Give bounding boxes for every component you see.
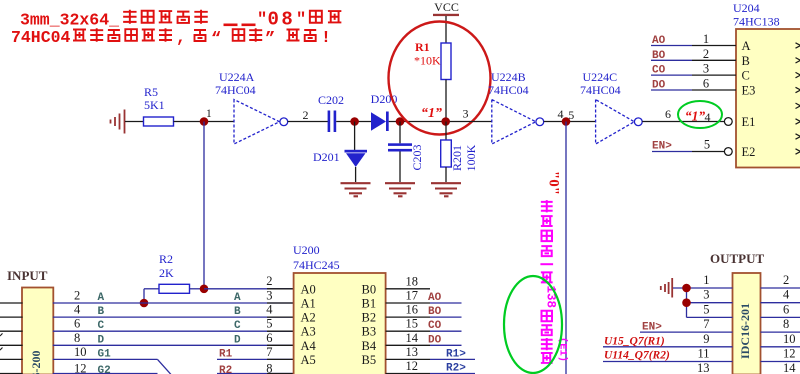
svg-text:C: C xyxy=(742,69,750,83)
svg-text:!: ! xyxy=(321,28,331,47)
green ellipse (around enable note) xyxy=(504,276,562,373)
svg-text:2: 2 xyxy=(266,274,272,288)
wire (connector right pins 2-14) xyxy=(761,288,800,362)
pin arrows inside U204 right edge xyxy=(796,43,800,154)
svg-text:“1”: “1” xyxy=(421,106,442,121)
svg-text:6: 6 xyxy=(783,302,789,316)
svg-text:C203: C203 xyxy=(410,144,424,170)
resistor R1 xyxy=(414,40,451,122)
wire xyxy=(125,121,144,123)
svg-text:G1: G1 xyxy=(98,348,112,360)
svg-text:4: 4 xyxy=(705,110,711,124)
wire (pin 6 to E1) xyxy=(642,107,724,124)
svg-text:C: C xyxy=(234,320,241,332)
wire (pins 4,5) xyxy=(544,107,596,122)
right pin numbers 2-14 xyxy=(783,273,796,374)
red highlight circle around R1 xyxy=(389,22,491,135)
connector IDC16-201 xyxy=(733,273,761,374)
svg-text:E3: E3 xyxy=(742,84,756,98)
wire net B (pin4 to U200 pin4) xyxy=(53,303,294,319)
wire (down to C203) xyxy=(399,122,401,144)
wire (connector left stubs) xyxy=(0,303,23,374)
svg-text:BO: BO xyxy=(428,306,442,318)
capacitor C203 xyxy=(388,143,424,182)
ground (under D201) xyxy=(341,183,371,196)
svg-text:R2: R2 xyxy=(219,365,232,374)
wire net R1 (U200 pin7) xyxy=(217,345,294,361)
op-amp U224C (74HC04 inverter) xyxy=(580,70,642,144)
svg-text:15: 15 xyxy=(406,317,419,331)
svg-text:U204: U204 xyxy=(733,1,760,15)
wire net AO (U204 pin 1) xyxy=(651,32,736,47)
svg-text:3: 3 xyxy=(703,288,709,302)
svg-text:74HC04: 74HC04 xyxy=(580,83,621,97)
annotation vertical magenta text xyxy=(540,200,568,363)
svg-text:100K: 100K xyxy=(464,144,478,171)
svg-text:DO: DO xyxy=(652,80,666,92)
svg-text:OUTPUT: OUTPUT xyxy=(710,251,765,266)
annotation "1" (red, green ellipse) xyxy=(678,101,722,128)
svg-text:12: 12 xyxy=(74,362,87,374)
svg-text:6: 6 xyxy=(703,77,709,91)
svg-text:R201: R201 xyxy=(450,145,464,171)
svg-text:R5: R5 xyxy=(144,85,158,99)
svg-text:CO: CO xyxy=(652,65,666,77)
wire xyxy=(389,121,446,123)
svg-text:18: 18 xyxy=(406,274,419,288)
svg-text:3: 3 xyxy=(266,289,272,303)
svg-text:4: 4 xyxy=(783,288,790,302)
svg-text:U114_Q7(R2): U114_Q7(R2) xyxy=(604,349,670,361)
svg-text:D201: D201 xyxy=(313,150,340,164)
wire (down to D201) xyxy=(354,122,356,151)
node junction (R2 right) xyxy=(200,285,209,294)
svg-text:3: 3 xyxy=(703,62,709,76)
node junction (R1/R201) xyxy=(441,107,468,126)
svg-text:5: 5 xyxy=(266,317,272,331)
wire net U114_Q7(R2) (pin 11) xyxy=(603,347,733,362)
svg-text:E2: E2 xyxy=(742,145,756,159)
svg-text:4: 4 xyxy=(266,303,273,317)
svg-text:6: 6 xyxy=(74,317,80,331)
svg-text:74HC04: 74HC04 xyxy=(11,28,71,47)
svg-text:6: 6 xyxy=(665,107,671,121)
svg-text:U200: U200 xyxy=(293,243,320,257)
svg-text:IDC16-200: IDC16-200 xyxy=(29,351,43,374)
svg-text:B4: B4 xyxy=(362,339,377,353)
wire net AO (U200 pin 17) xyxy=(386,289,462,305)
svg-text:U224B: U224B xyxy=(491,70,526,84)
svg-text:74HC04: 74HC04 xyxy=(215,83,256,97)
svg-text:1: 1 xyxy=(206,108,212,120)
wire net D (pin8 to U200 pin6) xyxy=(53,331,294,347)
svg-text:R1: R1 xyxy=(219,348,233,360)
svg-text:11: 11 xyxy=(697,347,709,361)
IC U200 74HC245 xyxy=(293,243,386,374)
wire net U15_Q7(R1) (pin 9) xyxy=(603,332,733,348)
wire net R1> (U200 pin 13) xyxy=(386,345,475,361)
svg-text:2: 2 xyxy=(703,47,709,61)
svg-text:9: 9 xyxy=(703,332,709,346)
connector IDC16-200 xyxy=(22,288,53,374)
svg-text:A3: A3 xyxy=(301,325,316,339)
node junction xyxy=(396,117,405,126)
diode D200 xyxy=(371,92,398,131)
wire (long vertical to bottom) xyxy=(565,122,567,374)
svg-text:B5: B5 xyxy=(362,353,377,367)
svg-text:B: B xyxy=(234,306,241,318)
ground (under R201) xyxy=(431,183,461,196)
svg-text:8: 8 xyxy=(266,362,272,374)
svg-text:VCC: VCC xyxy=(434,0,459,14)
svg-text:13: 13 xyxy=(406,345,419,359)
op-amp U224A (74HC04 inverter) xyxy=(215,70,288,144)
wire (gnd to pins 1,3,5) xyxy=(673,288,733,317)
svg-text:U224C: U224C xyxy=(583,70,618,84)
svg-text:A4: A4 xyxy=(301,339,317,353)
svg-text:"0": "0" xyxy=(546,171,562,195)
svg-text:D: D xyxy=(234,334,241,346)
svg-text:7: 7 xyxy=(266,345,272,359)
pin numbers 1,3,5 xyxy=(703,273,709,316)
svg-text:14: 14 xyxy=(783,361,796,374)
svg-text:,: , xyxy=(176,28,186,47)
wire net EN (U204 pin 5 / E2) xyxy=(652,138,732,156)
svg-text:": " xyxy=(296,11,306,30)
svg-text:R2: R2 xyxy=(159,252,173,266)
svg-text:74HC245: 74HC245 xyxy=(293,258,340,272)
svg-text:2K: 2K xyxy=(159,266,174,280)
svg-text:B2: B2 xyxy=(362,311,377,325)
svg-text:12: 12 xyxy=(783,347,796,361)
svg-text:4: 4 xyxy=(74,303,81,317)
svg-text:AO: AO xyxy=(428,292,442,304)
wire (cut arrowheads at sheet edge) xyxy=(0,333,3,350)
node junction (pin1) xyxy=(682,284,691,293)
svg-text:A0: A0 xyxy=(301,282,316,296)
ground (OUTPUT pins 1,3,5) xyxy=(661,278,672,298)
wire net BO (U204 pin 2) xyxy=(651,47,736,62)
svg-text:R2>: R2> xyxy=(446,363,466,374)
svg-text:U15_Q7(R1): U15_Q7(R1) xyxy=(604,335,665,347)
wire net DO (U200 pin 14) xyxy=(386,331,462,347)
svg-text:7: 7 xyxy=(703,317,709,331)
svg-text:138: 138 xyxy=(543,286,557,309)
svg-text:3: 3 xyxy=(463,107,469,121)
svg-text:2: 2 xyxy=(74,289,80,303)
svg-text:B: B xyxy=(742,54,750,68)
svg-text:17: 17 xyxy=(406,289,419,303)
node junction at pin 1 xyxy=(200,108,212,126)
svg-text:G2: G2 xyxy=(98,365,111,374)
svg-text:": " xyxy=(257,11,267,30)
wire (U200 pin 18) xyxy=(386,274,430,289)
pin E1 bubble xyxy=(724,118,732,126)
svg-text:2: 2 xyxy=(783,273,789,287)
IC U204 74HC138 xyxy=(733,1,800,168)
wire net DO (U204 pin 6) xyxy=(651,77,736,92)
wire net CO (U204 pin 3) xyxy=(651,62,736,77)
svg-text:5K1: 5K1 xyxy=(144,98,165,112)
svg-text:*10K: *10K xyxy=(414,54,441,68)
wire net C (pin6 to U200 pin5) xyxy=(53,317,294,333)
node junction (pin3) xyxy=(682,298,691,307)
svg-text:A1: A1 xyxy=(301,297,316,311)
svg-text:5: 5 xyxy=(703,302,709,316)
svg-text:13: 13 xyxy=(697,361,710,374)
wire net BO (U200 pin 16) xyxy=(386,303,462,319)
svg-text:A: A xyxy=(98,292,105,304)
wire net EN (pin 7) xyxy=(640,317,733,333)
svg-text:B: B xyxy=(98,306,105,318)
svg-text:DO: DO xyxy=(428,334,442,346)
wire (vertical from node 1 down to R2 row) xyxy=(203,122,205,289)
svg-text:8: 8 xyxy=(74,331,80,345)
svg-text:5: 5 xyxy=(704,138,710,152)
svg-text:1: 1 xyxy=(703,273,709,287)
svg-text:C202: C202 xyxy=(318,93,344,107)
svg-text:IDC16-201: IDC16-201 xyxy=(738,303,752,359)
wire net A (pin2 to U200 pin3) xyxy=(53,289,294,305)
svg-text:10: 10 xyxy=(74,345,87,359)
wire net G2 (pin12, exits bottom) xyxy=(53,362,158,374)
svg-text:EN>: EN> xyxy=(642,321,662,333)
svg-text:74HC138: 74HC138 xyxy=(733,15,780,29)
svg-text:“: “ xyxy=(211,30,221,49)
svg-text:CO: CO xyxy=(428,320,442,332)
diode D201 xyxy=(313,150,367,182)
wire xyxy=(450,121,492,123)
wire net CO (U200 pin 15) xyxy=(386,317,462,333)
svg-text:C: C xyxy=(98,320,105,332)
svg-text:16: 16 xyxy=(406,303,419,317)
wire (pin 2) xyxy=(288,108,328,122)
resistor R2 xyxy=(144,252,204,303)
ground (under C203) xyxy=(385,183,415,196)
title line 1 xyxy=(20,9,341,31)
svg-text:10: 10 xyxy=(783,332,796,346)
power VCC xyxy=(433,0,459,43)
svg-text:3mm_32x64_: 3mm_32x64_ xyxy=(20,11,119,30)
svg-text:A5: A5 xyxy=(301,353,316,367)
svg-text:D: D xyxy=(98,334,105,346)
svg-text:BO: BO xyxy=(652,50,666,62)
capacitor C202 xyxy=(318,93,344,132)
svg-text:74HC04: 74HC04 xyxy=(488,83,529,97)
wire net R2> (U200 pin 12) xyxy=(386,359,475,374)
svg-text:08: 08 xyxy=(268,9,296,31)
title line 2 xyxy=(11,28,331,49)
wire xyxy=(174,121,235,123)
svg-text:2: 2 xyxy=(303,108,309,122)
svg-text:A: A xyxy=(234,292,241,304)
svg-text:”: ” xyxy=(265,30,275,49)
svg-text:B3: B3 xyxy=(362,325,377,339)
node junction (pin4/5) xyxy=(562,117,571,126)
node junction xyxy=(350,117,359,126)
wire net R2 (U200 pin8) xyxy=(217,362,294,374)
svg-text:B0: B0 xyxy=(362,282,377,296)
resistor R5 xyxy=(144,85,174,126)
svg-text:8: 8 xyxy=(783,317,789,331)
resistor R201 xyxy=(441,122,478,183)
svg-text:“1”: “1” xyxy=(685,109,706,124)
svg-text:6: 6 xyxy=(266,331,272,345)
ground (left of R5) xyxy=(111,110,125,134)
svg-text:R1: R1 xyxy=(415,40,430,54)
wire (U200 left pin stubs) xyxy=(267,289,294,374)
svg-text:1: 1 xyxy=(703,32,709,46)
wire (to U200 pin 2) xyxy=(204,274,294,289)
wire net G1 (pin10, exits bottom) xyxy=(53,345,171,374)
svg-text:12: 12 xyxy=(406,359,419,373)
svg-text:R1>: R1> xyxy=(446,348,466,360)
wire xyxy=(336,121,371,123)
op-amp U224B (74HC04 inverter) xyxy=(488,70,544,144)
svg-text:E1: E1 xyxy=(742,115,756,129)
svg-text:A: A xyxy=(742,39,751,53)
svg-text:INPUT: INPUT xyxy=(7,268,48,283)
svg-text:B1: B1 xyxy=(362,297,377,311)
node junction (R2 left on A row) xyxy=(140,299,149,308)
svg-text:14: 14 xyxy=(406,331,419,345)
svg-text:A2: A2 xyxy=(301,311,316,325)
svg-text:AO: AO xyxy=(652,35,666,47)
svg-text:U224A: U224A xyxy=(219,70,255,84)
svg-text:EN>: EN> xyxy=(652,141,672,153)
